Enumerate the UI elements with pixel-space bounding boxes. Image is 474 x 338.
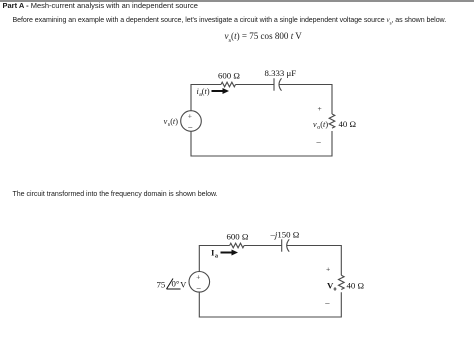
label Ia (circuit 2) xyxy=(211,248,218,260)
svg-text:–: – xyxy=(316,137,322,147)
svg-text:600 Ω: 600 Ω xyxy=(218,71,240,81)
label 8.333 uF (circuit 1) xyxy=(265,68,297,78)
svg-text:600 Ω: 600 Ω xyxy=(227,232,249,242)
equation vs(t) = 75 cos 800 t V xyxy=(225,31,302,44)
svg-text:8.333 μF: 8.333 μF xyxy=(265,68,297,78)
angle symbol stroke (circuit 2 source label) xyxy=(167,279,181,290)
voltage source vs(t) (circuit 1) xyxy=(181,111,202,132)
minus sign vo polarity (circuit 1) xyxy=(316,137,322,147)
current arrow Ia (circuit 2) xyxy=(221,250,239,256)
svg-text:(t): (t) xyxy=(320,120,328,129)
wire: circuit 1 top middle segment xyxy=(236,84,274,86)
top rule xyxy=(0,0,474,2)
wire: circuit 1 top-left segment xyxy=(191,85,221,111)
label -j150 ohm (circuit 2) xyxy=(270,230,300,240)
svg-text:+: + xyxy=(196,273,200,282)
wire: circuit 2 top-right segment xyxy=(287,246,342,276)
svg-text:40 Ω: 40 Ω xyxy=(339,119,357,129)
svg-text:(t): (t) xyxy=(202,87,210,96)
label Vo (circuit 2) xyxy=(327,281,337,293)
heading: Part A xyxy=(3,1,198,10)
plus sign inside source (circuit 2) xyxy=(196,273,200,282)
wire: circuit 1 top-right segment xyxy=(279,85,332,115)
minus sign Vo polarity (circuit 2) xyxy=(324,298,330,308)
resistor 600 ohm (circuit 1) xyxy=(221,82,235,87)
label 600 ohm (circuit 1) xyxy=(218,71,240,81)
wire: circuit 2 top middle segment xyxy=(244,245,281,247)
svg-text:a: a xyxy=(215,254,218,260)
svg-text:V: V xyxy=(180,281,186,290)
paragraph xyxy=(13,16,447,26)
minus sign inside source (circuit 1) xyxy=(187,123,193,132)
plus sign inside source (circuit 1) xyxy=(188,112,192,121)
svg-text:40 Ω: 40 Ω xyxy=(347,281,365,291)
svg-text:–: – xyxy=(196,283,202,292)
svg-text:75: 75 xyxy=(157,280,166,290)
current arrow ia(t) (circuit 1) xyxy=(212,88,230,94)
resistor 40 ohm (circuit 1) xyxy=(329,114,335,128)
wire: circuit 1 right-bottom segment xyxy=(191,131,332,156)
svg-text:–j150 Ω: –j150 Ω xyxy=(270,230,300,240)
label 40 ohm (circuit 1) xyxy=(339,119,357,129)
label ia(t) (circuit 1) xyxy=(197,87,210,98)
minus sign inside source (circuit 2) xyxy=(196,283,202,292)
label vs(t) (circuit 1) xyxy=(164,117,179,128)
capacitor -j150 ohm (circuit 2) xyxy=(282,239,290,251)
wire: circuit 2 top-left segment xyxy=(199,246,229,272)
resistor 40 ohm (circuit 2) xyxy=(338,275,344,289)
label 600 ohm (circuit 2) xyxy=(227,232,249,242)
label 40 ohm (circuit 2) xyxy=(347,281,365,291)
capacitor 8.333 uF (circuit 1) xyxy=(274,78,282,90)
svg-text:0°: 0° xyxy=(172,279,180,289)
svg-text:+: + xyxy=(188,112,192,121)
wire: circuit 2 right-bottom segment xyxy=(199,292,341,317)
label vo(t) (circuit 1) xyxy=(313,120,328,131)
svg-text:(t): (t) xyxy=(170,117,178,126)
plus sign vo polarity (circuit 1) xyxy=(318,104,322,113)
svg-text:+: + xyxy=(318,104,322,113)
svg-text:o: o xyxy=(334,287,337,293)
label 75 angle 0 V (circuit 2) xyxy=(157,279,187,290)
voltage source 75 angle 0 V (circuit 2) xyxy=(189,272,210,293)
resistor 600 ohm (circuit 2) xyxy=(230,243,244,248)
svg-text:+: + xyxy=(326,265,330,274)
svg-text:–: – xyxy=(324,298,330,308)
caption: frequency-domain circuit xyxy=(13,191,218,198)
svg-text:–: – xyxy=(187,123,193,132)
plus sign Vo polarity (circuit 2) xyxy=(326,265,330,274)
